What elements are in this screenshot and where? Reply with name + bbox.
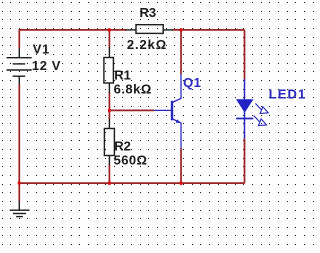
svg-text:Q1: Q1 [183,75,201,90]
svg-text:R1: R1 [114,67,131,82]
svg-text:LED1: LED1 [269,87,307,102]
svg-text:2.2kΩ: 2.2kΩ [127,37,167,52]
svg-text:12 V: 12 V [32,58,61,73]
svg-text:V1: V1 [33,42,50,57]
svg-text:6.8kΩ: 6.8kΩ [114,81,152,96]
svg-text:R3: R3 [140,5,157,20]
svg-text:560Ω: 560Ω [114,153,148,168]
svg-text:R2: R2 [114,139,131,154]
